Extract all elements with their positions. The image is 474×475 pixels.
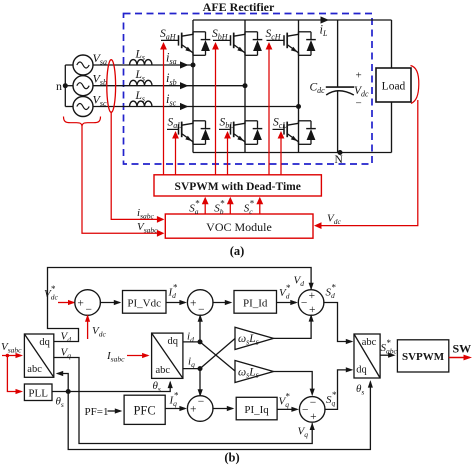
node n (neutral bus wire): [64, 65, 66, 107]
wire DC- bottom rail: [193, 152, 392, 154]
svg-text:*: *: [250, 198, 255, 208]
svg-text:−: −: [310, 397, 317, 409]
svg-text:*: *: [220, 198, 225, 208]
IGBT S_bL with antiparallel diode: [219, 121, 262, 145]
svg-text:Load: Load: [382, 81, 406, 93]
wire phase b from source to bridge leg: [93, 85, 245, 87]
PI_Iq block: [236, 397, 277, 420]
wire PFC to summing node 4: [165, 408, 185, 410]
wire phase a from source to bridge leg: [93, 64, 193, 66]
svg-text:+: +: [190, 298, 197, 310]
IGBT S_cH with antiparallel diode: [267, 32, 316, 56]
svg-text:+: +: [309, 304, 316, 316]
current arrow i_sb: [180, 82, 189, 89]
gate drive wire to S_aH: [163, 44, 165, 175]
svg-text:*: *: [387, 338, 392, 348]
gate drive wire to S_bH: [215, 44, 217, 175]
wire S_abc* to SVPWM: [380, 354, 394, 356]
svg-text:+: +: [309, 290, 316, 302]
svg-text:n: n: [56, 79, 62, 93]
gain amp omega_s L_s (lower): [235, 361, 274, 383]
svg-text:(b): (b): [224, 451, 239, 465]
wire bridge leg b (vertical): [244, 20, 246, 153]
svg-text:dq: dq: [168, 336, 179, 347]
input I_sabc: [127, 355, 148, 357]
capacitor C_dc: [337, 20, 339, 87]
wire i_q down to summing node 4 (minus): [199, 369, 201, 396]
V_dc sensor bracket: [411, 66, 419, 104]
svg-text:SVPWM with Dead-Time: SVPWM with Dead-Time: [175, 181, 301, 193]
node N: [338, 150, 343, 155]
AC voltage source V_sc: [73, 97, 93, 117]
svg-text:*: *: [286, 283, 291, 293]
wire bridge leg a (vertical): [192, 20, 194, 153]
wire upper amp output to S_d* node (plus, bottom): [274, 316, 312, 339]
current sensor ellipse (i_sabc measurement): [107, 60, 116, 113]
measurement wire i_sabc (ellipse to VOC): [111, 112, 162, 219]
summing node 4 (Iq loop): [187, 396, 213, 422]
SVPWM with Dead-Time box: [154, 175, 321, 196]
voltage sensor brace (V_sabc measurement): [64, 117, 101, 128]
gate drive wire to S_cH: [268, 44, 270, 175]
svg-text:+: +: [190, 404, 197, 416]
node i_d junction: [198, 339, 203, 344]
current arrow i_sa: [180, 61, 189, 68]
gate drive wire to S_cL: [280, 133, 282, 175]
svg-text:abc: abc: [362, 337, 377, 348]
svg-text:−: −: [301, 298, 308, 310]
svg-text:*: *: [332, 282, 337, 292]
PLL block: [24, 384, 52, 401]
wire PI_Iq to summing node 5: [277, 408, 297, 410]
output SW wire: [449, 357, 470, 359]
gain amp omega_s L_s (upper): [235, 327, 274, 349]
current arrow i_sc: [180, 103, 189, 110]
PI_Id block: [234, 291, 277, 314]
svg-text:+: +: [310, 411, 317, 423]
wire bridge leg c (vertical): [298, 20, 300, 153]
wire S_d* to abc-dq block: [323, 303, 351, 342]
svg-text:abc: abc: [27, 364, 42, 375]
svg-text:VOC Module: VOC Module: [206, 220, 272, 234]
svg-text:dq: dq: [356, 365, 367, 376]
wire i_d to summing node 2 (minus): [199, 316, 201, 342]
node i_q junction: [198, 366, 203, 371]
svg-text:−: −: [198, 304, 205, 316]
node phase b junction: [243, 83, 248, 88]
wire lower amp output to S_q* node (minus, top): [274, 372, 313, 395]
svg-text:−: −: [198, 396, 205, 408]
svg-text:−: −: [86, 304, 93, 316]
summing node 2 (Id loop): [187, 290, 213, 316]
svg-text:*: *: [51, 284, 56, 294]
IGBT S_bH with antiparallel diode: [213, 32, 262, 56]
svg-text:N: N: [335, 154, 344, 166]
wire PF=1 to PFC: [108, 410, 121, 412]
svg-text:PLL: PLL: [28, 387, 48, 399]
VOC Module box: [165, 214, 313, 238]
svg-text:PI_Iq: PI_Iq: [244, 404, 269, 416]
gate drive wire to S_bL: [227, 133, 229, 175]
svg-text:PI_Vdc: PI_Vdc: [127, 298, 161, 310]
input V_dc* reference: [58, 302, 74, 304]
wire i_q output: [183, 368, 200, 370]
inductor L_s (phase a): [130, 60, 153, 65]
wire i_q cross to upper omega_s L_s amp: [200, 339, 235, 369]
svg-text:+: +: [356, 70, 362, 82]
IGBT S_aL with antiparallel diode: [167, 121, 210, 145]
wire summing node 4 to PI_Iq: [212, 408, 232, 410]
input V_sabc (to dq block): [2, 355, 21, 357]
node phase c junction: [296, 104, 301, 109]
svg-text:*: *: [332, 390, 337, 400]
current arrow i_L on top rail: [321, 16, 330, 23]
wire S_q* to inverse dq block: [324, 370, 351, 410]
wire DC+ top rail: [193, 19, 392, 21]
dq-to-abc block (inverse): [354, 334, 380, 378]
load box: [391, 20, 393, 68]
IGBT S_aH with antiparallel diode: [161, 32, 210, 56]
AC voltage source V_sb: [73, 76, 93, 96]
abc-to-dq block (voltage): [24, 334, 53, 377]
svg-text:PI_Id: PI_Id: [243, 298, 268, 310]
gate drive wire to S_aL: [175, 133, 177, 175]
wire summing node 1 to PI_Vdc: [100, 302, 120, 304]
AC voltage source V_sa: [73, 55, 93, 75]
wire phase c from source to bridge leg: [93, 106, 299, 108]
wire theta_s to voltage dq block: [58, 374, 69, 392]
wire V_sabc branch to PLL: [7, 356, 21, 392]
wire i_d output: [183, 341, 200, 343]
wire PI_Vdc to summing node 2: [166, 302, 185, 304]
svg-text:*: *: [174, 390, 179, 400]
AFE rectifier dashed boundary box: [124, 14, 373, 165]
inductor L_s (phase c): [130, 101, 153, 106]
wire PI_Id to summing node 3: [277, 302, 297, 304]
svg-text:dq: dq: [39, 337, 50, 348]
svg-text:PFC: PFC: [133, 404, 155, 418]
node theta_s junction: [66, 389, 71, 394]
summing node 1 (Vdc loop): [75, 290, 101, 316]
node phase a junction: [191, 63, 196, 68]
abc-to-dq block (current): [152, 333, 183, 378]
summing node 3 (S_d* node): [298, 290, 324, 316]
IGBT S_cL with antiparallel diode: [273, 121, 316, 145]
wire PLL output theta_s: [52, 391, 68, 393]
inductor L_s (phase b): [130, 80, 153, 85]
svg-text:+: +: [77, 298, 84, 310]
gating signal wire S_c* from VOC to SVPWM: [259, 198, 261, 214]
measurement wire V_sabc (brace to VOC): [82, 127, 163, 233]
svg-text:*: *: [286, 391, 291, 401]
svg-text:abc: abc: [155, 365, 170, 376]
PFC block: [124, 395, 165, 424]
svg-text:PF=1: PF=1: [85, 406, 109, 418]
wire V_d feedforward (dq block to S_d* summing node, over the top): [48, 268, 312, 342]
svg-text:(a): (a): [230, 244, 245, 258]
wire theta_s to current dq block: [68, 382, 170, 391]
wire theta_s to inverse dq block (bottom run): [68, 382, 370, 450]
svg-text:SW: SW: [453, 342, 472, 356]
svg-text:*: *: [173, 282, 178, 292]
gating signal wire S_a* from VOC to SVPWM: [204, 198, 206, 214]
gating signal wire S_b* from VOC to SVPWM: [229, 198, 231, 214]
wire summing node 2 to PI_Id: [212, 302, 230, 304]
summing node 5 (S_q* node): [299, 397, 325, 423]
svg-text:SVPWM: SVPWM: [402, 351, 445, 363]
svg-text:AFE Rectifier: AFE Rectifier: [203, 0, 275, 14]
svg-text:−: −: [356, 98, 362, 110]
PI_Vdc block: [123, 291, 167, 314]
measurement wire V_dc (bracket to VOC): [316, 100, 418, 226]
wire V_q (dq block to S_q* summing node bottom): [54, 358, 312, 444]
svg-text:*: *: [195, 198, 200, 208]
wire i_d cross to lower omega_s L_s amp: [200, 342, 235, 371]
SVPWM block: [397, 340, 448, 372]
feedback V_dc into summing node 1: [87, 316, 89, 339]
svg-text:−: −: [302, 404, 309, 416]
